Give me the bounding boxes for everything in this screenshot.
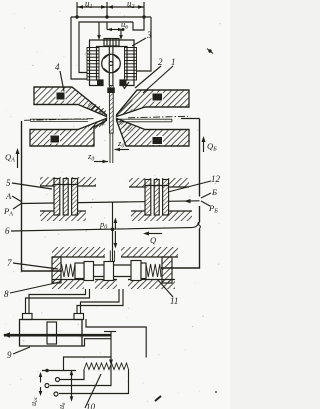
pivot center <box>109 62 113 66</box>
dimension z0 <box>115 148 130 151</box>
wire right inner <box>133 17 144 30</box>
body right edge <box>161 119 200 269</box>
svg-text:9: 9 <box>7 350 12 360</box>
upper-left slab <box>34 87 107 117</box>
svg-text:7: 7 <box>7 258 12 268</box>
leader B <box>201 193 211 198</box>
svg-text:1: 1 <box>171 57 176 67</box>
spool pocket wall right <box>162 257 172 283</box>
svg-text:Б: Б <box>211 187 217 197</box>
wiper arrow <box>109 360 113 366</box>
terminal circle 2 <box>56 378 60 382</box>
leader 1 <box>143 66 173 93</box>
spool bottom hatch <box>52 280 175 290</box>
spool end cap right <box>141 263 146 279</box>
channel A line <box>22 201 200 204</box>
voltage arrows u_v <box>70 370 74 402</box>
lower-left slab <box>30 118 107 146</box>
terminal circle 3 <box>54 392 58 396</box>
wire u_oc upper <box>42 357 111 371</box>
yoke foot left <box>97 81 103 86</box>
leader 2 <box>135 66 161 88</box>
nozzle channel left <box>30 119 88 121</box>
leader PA <box>13 203 22 209</box>
wire to coil right <box>119 30 123 41</box>
flow arrow QB <box>202 136 206 152</box>
orifice plug right <box>145 179 170 216</box>
dimension line u1-u2 <box>77 2 144 17</box>
body left edge <box>22 121 63 271</box>
seal right upper <box>152 93 163 101</box>
flange left <box>23 314 33 320</box>
flexure mount block <box>104 39 119 47</box>
node dots on bus <box>75 15 145 18</box>
surface mark V <box>121 82 129 89</box>
spool land 1 <box>84 262 94 281</box>
svg-text:11: 11 <box>170 296 178 306</box>
pipe A <box>26 289 90 318</box>
nozzle tip texture LL <box>88 119 106 131</box>
leader 9 <box>13 347 30 354</box>
spring left <box>62 264 76 277</box>
svg-text:А: А <box>5 191 12 201</box>
torque motor coil left <box>87 48 99 81</box>
piston <box>47 322 57 344</box>
voltage arrows u_oc <box>39 372 43 396</box>
dimension u_b <box>107 22 125 31</box>
seal 4 left <box>56 92 65 100</box>
seal right lower <box>152 137 163 145</box>
orifice bottom strip right <box>131 211 192 221</box>
break squiggle <box>198 222 201 229</box>
svg-text:2: 2 <box>158 57 163 67</box>
lower-right slab <box>117 118 190 146</box>
spring right <box>146 264 161 277</box>
svg-text:3: 3 <box>146 30 152 40</box>
orifice bottom strip left <box>40 211 86 221</box>
svg-text:4: 4 <box>55 62 60 72</box>
rod left arrow <box>3 332 10 338</box>
flapper hub black <box>107 88 115 94</box>
spool pocket wall left <box>52 257 61 283</box>
leader 5 <box>12 183 52 189</box>
potentiometer winding <box>84 363 129 370</box>
leader 12 <box>168 181 211 192</box>
wire pot left end <box>60 370 84 380</box>
speck dot <box>215 391 217 393</box>
arrow up p0 <box>114 218 118 230</box>
wiper rod <box>104 332 116 364</box>
dimension zd <box>94 160 108 163</box>
leader 3 <box>132 38 146 46</box>
spool end cap left <box>75 263 84 279</box>
flange right <box>74 314 84 320</box>
wire right outer <box>137 17 151 71</box>
nozzle tip texture UR <box>117 96 133 116</box>
nozzle tip texture UL <box>88 100 106 116</box>
svg-text:6: 6 <box>5 226 10 236</box>
nozzle tip strokes left <box>90 105 106 131</box>
armature chamfers <box>104 55 119 73</box>
wire over cylinder <box>86 319 146 358</box>
armature bar <box>109 46 113 86</box>
torque motor U yoke <box>90 40 135 86</box>
cylinder body <box>20 320 83 347</box>
wire pot right end <box>59 370 129 394</box>
rod <box>4 334 112 337</box>
p0 spool entry stubs <box>110 251 114 263</box>
wire left outer <box>71 17 87 79</box>
svg-text:5: 5 <box>6 178 11 188</box>
port B arrow <box>184 199 191 203</box>
svg-text:8: 8 <box>4 289 9 299</box>
wire bus <box>71 16 151 18</box>
arrow down p0 <box>114 231 118 249</box>
nozzle tip texture LR <box>117 119 133 131</box>
nozzle channel right <box>117 119 173 122</box>
seal left lower <box>50 135 60 143</box>
wire wiper to terminal <box>50 365 111 386</box>
spool land 3 <box>131 261 141 281</box>
upper-right slab <box>117 90 190 117</box>
yoke foot right <box>121 81 127 86</box>
speck top right <box>208 49 211 52</box>
p0 line vertical <box>112 202 114 262</box>
armature pivot circle <box>102 54 121 73</box>
torque motor coil right <box>125 48 137 81</box>
spool rod <box>75 265 146 277</box>
leader 11 <box>158 280 173 297</box>
svg-text:12: 12 <box>211 174 221 184</box>
leader 4 <box>60 71 65 94</box>
leader 7 <box>13 263 58 269</box>
leader 8 <box>10 282 60 293</box>
leader PB <box>201 201 210 206</box>
wire inner box <box>79 22 133 73</box>
terminal circle 1 <box>45 384 49 388</box>
spool land 2 <box>104 262 114 281</box>
flapper stem <box>109 86 113 164</box>
junction p0 <box>111 228 115 232</box>
leader 10 <box>85 374 101 408</box>
flow arrow QA <box>16 148 20 168</box>
supply line 6 <box>11 223 200 232</box>
pipe B <box>77 289 123 318</box>
leader A <box>12 196 22 202</box>
body top right stub <box>181 118 200 120</box>
spool top hatch <box>52 247 178 257</box>
wire to coil left <box>97 22 101 40</box>
centerline <box>24 116 188 120</box>
rod bracket <box>82 339 111 346</box>
svg-text:Q: Q <box>150 235 156 245</box>
speck bottom right <box>155 396 161 401</box>
orifice plug left <box>54 178 79 216</box>
flow arrow Q <box>143 232 162 236</box>
orifice top strip left <box>40 177 96 186</box>
orifice top strip right <box>129 178 189 187</box>
node dot u_oc <box>45 369 48 372</box>
